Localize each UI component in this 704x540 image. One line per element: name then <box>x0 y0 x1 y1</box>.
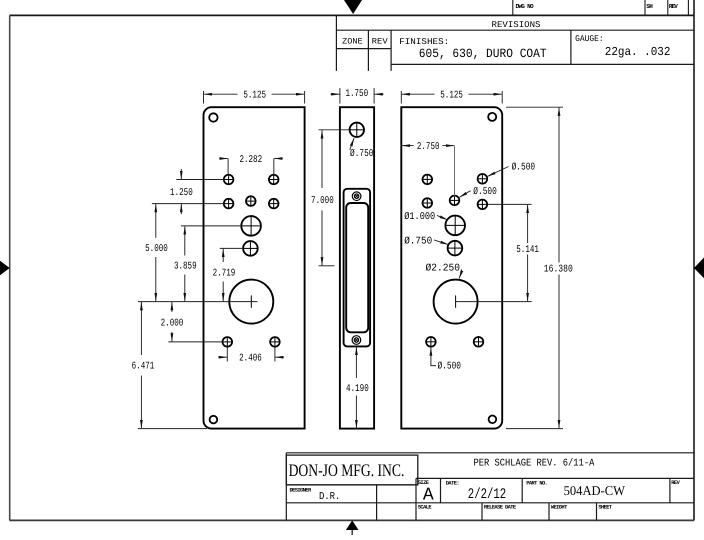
svg-text:1.250: 1.250 <box>170 187 193 199</box>
svg-text:DESIGNER: DESIGNER <box>290 488 312 494</box>
D.R. row line (logo box bottom continues) <box>286 484 418 486</box>
zone marker triangle bottom <box>346 520 359 535</box>
hole R-bottom-a <box>426 336 437 347</box>
dim 3.859 extension line <box>181 225 242 227</box>
corner hole bottom-left <box>210 416 218 424</box>
svg-text:2.282: 2.282 <box>239 154 262 166</box>
dim 2.750 line <box>402 145 414 147</box>
svg-text:D.R.: D.R. <box>319 491 341 503</box>
MIDDLE PLATE FEATURES <box>350 123 364 345</box>
big circle centerline left <box>138 301 258 303</box>
REVISIONS TABLE <box>336 15 694 71</box>
dim 5.125 right line <box>402 93 435 95</box>
svg-text:SHEET: SHEET <box>598 505 613 511</box>
zone/rev header underline <box>336 48 391 50</box>
dim 2.406 extension lines <box>226 348 228 362</box>
designer cell divider <box>376 485 378 521</box>
leader R dia .500 top <box>487 167 508 177</box>
svg-text:5.125: 5.125 <box>243 89 266 101</box>
svg-text:Ø2.250: Ø2.250 <box>426 263 461 275</box>
svg-text:REV: REV <box>671 480 680 486</box>
svg-text:A: A <box>423 485 434 505</box>
dim 5.141 line <box>527 205 529 243</box>
svg-text:3.859: 3.859 <box>174 261 197 273</box>
hole L diameter 2.250 <box>229 280 273 324</box>
revisions header bottom line <box>336 29 694 31</box>
zone/rev divider <box>367 30 369 71</box>
LEFT PLATE HOLES <box>209 113 280 423</box>
leader M dia .750 <box>350 138 354 150</box>
svg-text:2.750: 2.750 <box>417 141 440 153</box>
middle plate outline <box>340 107 374 428</box>
svg-text:2.719: 2.719 <box>213 267 236 279</box>
finishes gauge bottom line <box>391 63 694 65</box>
release/weight divider <box>548 503 550 521</box>
leader R dia .750 <box>434 240 448 245</box>
svg-text:WEIGHT: WEIGHT <box>551 505 568 511</box>
zone marker triangle right <box>694 258 704 279</box>
leader R dia 1.000 <box>437 215 448 220</box>
screw bottom <box>352 336 361 345</box>
svg-text:1.750: 1.750 <box>345 88 368 100</box>
part/rev divider <box>669 478 671 502</box>
leader R dia 2.250 <box>459 270 461 279</box>
hole R-row2-c <box>477 199 488 210</box>
svg-text:2/2/12: 2/2/12 <box>468 487 506 503</box>
dim 7.000 extension lines <box>319 129 350 131</box>
dim 2.406 arrows <box>219 356 227 358</box>
corner hole bottom-right <box>489 416 497 424</box>
bottom edge extension line <box>138 428 207 430</box>
zone marker triangle left <box>0 261 10 275</box>
weight/sheet divider <box>596 503 598 521</box>
hole L-row1-a <box>223 174 234 185</box>
dim 1.250 arrows <box>180 169 182 179</box>
dim 16.380 extension lines <box>506 106 563 108</box>
DON-JO logo box <box>286 455 418 485</box>
dim 2.000 extension line <box>168 341 222 343</box>
svg-text:504AD-CW: 504AD-CW <box>564 483 626 498</box>
finishes/gauge divider <box>570 30 572 64</box>
hole L-bottom-b <box>270 337 281 348</box>
hole L-row2-a <box>223 198 234 209</box>
RIGHT PLATE HOLES <box>422 113 496 423</box>
hole L-row2-b <box>245 196 256 207</box>
svg-text:RELEASE DATE: RELEASE DATE <box>484 505 517 511</box>
dim 3.859 line <box>184 226 186 255</box>
svg-text:Ø.500: Ø.500 <box>438 361 462 373</box>
size cell right <box>440 478 442 502</box>
size cell left <box>415 478 417 520</box>
dim 2.282 extension lines <box>227 159 229 176</box>
right border <box>693 0 695 520</box>
svg-text:Ø.500: Ø.500 <box>473 186 497 198</box>
hole L-bottom-a <box>222 337 233 348</box>
svg-text:2.000: 2.000 <box>161 317 184 329</box>
svg-text:REVISIONS: REVISIONS <box>492 20 541 30</box>
svg-text:Ø.750: Ø.750 <box>350 148 374 160</box>
dim 2.719 line <box>222 249 224 262</box>
svg-text:SCALE: SCALE <box>418 505 433 511</box>
hole R diameter .750 <box>448 241 463 256</box>
dim 1.750 arrows <box>331 93 340 95</box>
row line under PER SCHLAGE <box>416 477 694 479</box>
svg-text:FINISHES:: FINISHES: <box>399 37 449 47</box>
row line above bottom row <box>286 502 694 504</box>
svg-text:16.380: 16.380 <box>544 264 573 276</box>
hole R-row2-a <box>422 198 433 209</box>
hole R diameter 1.000 <box>445 216 465 236</box>
hole R-row1-b <box>477 173 488 184</box>
zone marker triangle top <box>344 0 362 14</box>
dim 2.750 drop extension <box>454 146 456 197</box>
svg-text:DON-JO MFG. INC.: DON-JO MFG. INC. <box>289 460 405 480</box>
dim 2.719 extension line <box>220 247 244 249</box>
title block top line <box>286 452 694 454</box>
hole L-row2-c <box>268 198 279 209</box>
cylinder slot outer <box>344 189 371 347</box>
corner hole top-right <box>488 113 496 121</box>
TITLE BLOCK <box>286 453 694 521</box>
dim 5.000 line <box>155 204 157 238</box>
svg-text:PER SCHLAGE REV. 6/11-A: PER SCHLAGE REV. 6/11-A <box>473 458 595 470</box>
svg-text:REV: REV <box>669 3 678 10</box>
svg-text:PART NO.: PART NO. <box>526 481 547 487</box>
right plate outline <box>401 107 502 428</box>
hole R-row2-b <box>449 195 460 206</box>
hole L diameter .750 <box>243 241 258 256</box>
dim 16.380 line <box>558 108 560 263</box>
dim 7.000 line <box>321 130 323 188</box>
dim 4.190 line <box>355 347 357 378</box>
cylinder slot inner <box>346 203 368 332</box>
svg-text:5.000: 5.000 <box>145 243 168 255</box>
rev/finishes divider <box>390 30 392 71</box>
svg-text:ZONE: ZONE <box>342 38 363 47</box>
svg-text:5.125: 5.125 <box>440 89 463 101</box>
hole M diameter .750 top <box>350 123 364 137</box>
bottom border <box>10 519 695 521</box>
svg-text:DATE:: DATE: <box>446 481 459 487</box>
top border <box>10 14 695 16</box>
svg-text:Ø1.000: Ø1.000 <box>404 211 435 223</box>
svg-text:Ø.750: Ø.750 <box>404 235 432 247</box>
left plate outline <box>204 107 305 428</box>
dim 1.750 extension lines <box>339 88 341 104</box>
svg-text:4.190: 4.190 <box>346 383 369 395</box>
dim 5.125 right extension lines <box>400 91 402 104</box>
dim 5.125 left plate line <box>204 93 238 95</box>
svg-text:DWG NO: DWG NO <box>516 3 535 10</box>
svg-text:REV: REV <box>372 38 388 47</box>
svg-text:605, 630, DURO COAT: 605, 630, DURO COAT <box>419 47 547 61</box>
svg-text:7.000: 7.000 <box>311 195 334 207</box>
dim 5.125 left plate extension lines <box>203 91 205 104</box>
date/part divider <box>521 478 523 502</box>
svg-text:Ø.500: Ø.500 <box>512 162 535 174</box>
title block left edge <box>285 453 287 521</box>
top strip cells (cropped sheet header) <box>513 0 689 15</box>
left border <box>9 15 11 520</box>
dim 2.282 arrows <box>219 158 227 160</box>
dim 5.141 extension lines <box>488 203 532 205</box>
svg-text:22ga. .032: 22ga. .032 <box>605 45 671 59</box>
dim 1.250 extension lines <box>176 179 224 181</box>
scale/release divider <box>481 503 483 521</box>
hole L diameter 1.000 <box>241 216 261 236</box>
leader R dia .500 bottom <box>431 348 436 366</box>
svg-text:GAUGE:: GAUGE: <box>575 34 604 44</box>
leader R dia .500 mid <box>459 191 470 198</box>
hole L-row1-b <box>268 174 279 185</box>
dim 2.000 line <box>171 302 173 312</box>
revisions table left edge <box>335 15 337 71</box>
hole R diameter 2.250 <box>434 280 478 324</box>
corner hole top-left <box>209 113 217 121</box>
hole R-bottom-b <box>473 336 484 347</box>
svg-text:5.141: 5.141 <box>516 244 539 256</box>
svg-text:2.406: 2.406 <box>239 353 262 365</box>
hole R-row1-a <box>422 174 433 185</box>
svg-text:6.471: 6.471 <box>132 361 155 373</box>
screw top <box>352 192 361 201</box>
dim 6.471 line <box>140 302 142 355</box>
